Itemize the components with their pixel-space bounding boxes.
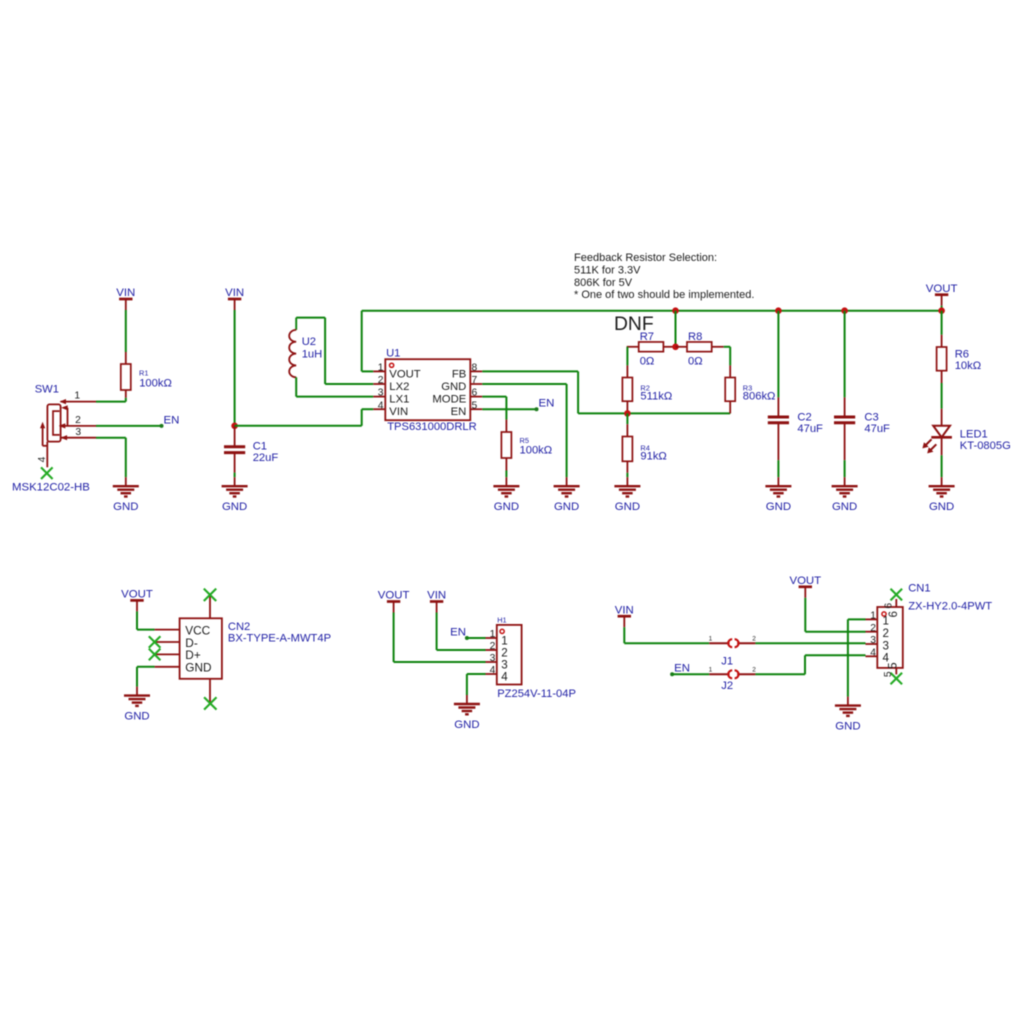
svg-text:806kΩ: 806kΩ bbox=[743, 390, 776, 402]
svg-text:CN2: CN2 bbox=[228, 621, 250, 633]
svg-text:GND: GND bbox=[441, 381, 466, 393]
svg-text:J2: J2 bbox=[721, 680, 733, 692]
svg-text:91kΩ: 91kΩ bbox=[640, 451, 666, 463]
svg-text:MSK12C02-HB: MSK12C02-HB bbox=[12, 482, 90, 494]
svg-text:C2: C2 bbox=[797, 412, 811, 424]
svg-text:1: 1 bbox=[709, 636, 713, 643]
svg-text:GND: GND bbox=[454, 719, 479, 731]
svg-text:3: 3 bbox=[378, 388, 384, 399]
svg-text:6: 6 bbox=[472, 388, 478, 399]
svg-text:4: 4 bbox=[378, 400, 384, 411]
svg-text:1: 1 bbox=[378, 363, 384, 374]
svg-text:GND: GND bbox=[832, 501, 857, 513]
svg-text:FB: FB bbox=[452, 368, 466, 380]
svg-text:VOUT: VOUT bbox=[926, 283, 958, 295]
svg-text:C1: C1 bbox=[253, 441, 267, 453]
svg-text:1: 1 bbox=[490, 629, 496, 640]
svg-text:VOUT: VOUT bbox=[389, 368, 420, 380]
svg-text:H1: H1 bbox=[497, 616, 506, 625]
svg-text:R1: R1 bbox=[139, 369, 148, 378]
svg-text:8: 8 bbox=[472, 363, 478, 374]
svg-text:100kΩ: 100kΩ bbox=[139, 378, 172, 390]
svg-text:KT-0805G: KT-0805G bbox=[960, 440, 1011, 452]
svg-text:C3: C3 bbox=[864, 412, 878, 424]
svg-text:511kΩ: 511kΩ bbox=[640, 390, 672, 402]
svg-text:VIN: VIN bbox=[427, 590, 446, 602]
svg-text:806K for 5V: 806K for 5V bbox=[574, 277, 633, 289]
svg-text:3: 3 bbox=[870, 635, 876, 646]
svg-text:GND: GND bbox=[222, 501, 247, 513]
svg-text:5: 5 bbox=[883, 671, 894, 677]
svg-text:6: 6 bbox=[883, 603, 894, 609]
svg-text:CN1: CN1 bbox=[908, 583, 930, 595]
svg-text:7: 7 bbox=[472, 375, 478, 386]
svg-text:4: 4 bbox=[490, 665, 496, 676]
svg-text:VIN: VIN bbox=[615, 604, 634, 616]
svg-text:2: 2 bbox=[378, 375, 384, 386]
svg-text:511K for 3.3V: 511K for 3.3V bbox=[574, 265, 641, 277]
svg-text:ZX-HY2.0-4PWT: ZX-HY2.0-4PWT bbox=[908, 600, 992, 612]
svg-text:2: 2 bbox=[870, 623, 876, 634]
svg-text:5: 5 bbox=[887, 662, 900, 668]
svg-text:GND: GND bbox=[185, 661, 211, 675]
svg-text:1uH: 1uH bbox=[302, 349, 323, 361]
svg-text:LED1: LED1 bbox=[960, 428, 988, 440]
svg-text:VOUT: VOUT bbox=[378, 590, 410, 602]
svg-text:47uF: 47uF bbox=[797, 423, 823, 435]
svg-text:100kΩ: 100kΩ bbox=[520, 445, 553, 457]
svg-text:VIN: VIN bbox=[116, 287, 135, 299]
svg-text:4: 4 bbox=[870, 647, 876, 658]
svg-text:U1: U1 bbox=[386, 347, 400, 359]
svg-text:3: 3 bbox=[75, 427, 81, 438]
svg-text:4: 4 bbox=[37, 456, 48, 462]
svg-text:R5: R5 bbox=[520, 436, 529, 445]
svg-text:3: 3 bbox=[883, 639, 889, 652]
svg-text:EN: EN bbox=[539, 397, 555, 409]
svg-text:GND: GND bbox=[494, 501, 519, 513]
svg-text:GND: GND bbox=[766, 501, 791, 513]
svg-text:MODE: MODE bbox=[432, 394, 466, 406]
svg-text:2: 2 bbox=[883, 627, 889, 640]
svg-text:GND: GND bbox=[554, 501, 579, 513]
svg-text:EN: EN bbox=[674, 663, 690, 675]
svg-text:47uF: 47uF bbox=[864, 423, 890, 435]
svg-text:4: 4 bbox=[501, 671, 508, 684]
svg-text:2: 2 bbox=[490, 641, 496, 652]
svg-text:VOUT: VOUT bbox=[789, 575, 821, 587]
svg-text:GND: GND bbox=[113, 501, 138, 513]
svg-text:EN: EN bbox=[164, 414, 180, 426]
svg-text:BX-TYPE-A-MWT4P: BX-TYPE-A-MWT4P bbox=[228, 633, 331, 645]
svg-text:22uF: 22uF bbox=[253, 452, 279, 464]
svg-text:PZ254V-11-04P: PZ254V-11-04P bbox=[497, 688, 576, 700]
svg-text:SW1: SW1 bbox=[35, 383, 59, 395]
svg-text:5: 5 bbox=[472, 400, 478, 411]
svg-text:EN: EN bbox=[451, 406, 467, 418]
svg-text:2: 2 bbox=[75, 415, 81, 426]
svg-text:VOUT: VOUT bbox=[121, 589, 153, 601]
svg-text:VIN: VIN bbox=[389, 406, 408, 418]
svg-text:1: 1 bbox=[74, 391, 80, 402]
svg-text:R8: R8 bbox=[688, 331, 702, 343]
svg-text:1: 1 bbox=[709, 667, 713, 674]
svg-text:TPS631000DRLR: TPS631000DRLR bbox=[387, 421, 477, 433]
svg-text:GND: GND bbox=[929, 501, 954, 513]
svg-text:LX1: LX1 bbox=[389, 394, 409, 406]
svg-text:0Ω: 0Ω bbox=[688, 356, 703, 368]
svg-text:J1: J1 bbox=[721, 656, 733, 668]
svg-text:1: 1 bbox=[870, 611, 876, 622]
svg-text:Feedback Resistor Selection:: Feedback Resistor Selection: bbox=[574, 252, 717, 264]
svg-text:GND: GND bbox=[615, 501, 640, 513]
svg-text:10kΩ: 10kΩ bbox=[955, 360, 981, 372]
svg-text:R7: R7 bbox=[640, 331, 654, 343]
svg-text:6: 6 bbox=[887, 611, 900, 617]
svg-text:EN: EN bbox=[450, 626, 466, 638]
svg-text:U2: U2 bbox=[302, 336, 316, 348]
svg-text:3: 3 bbox=[490, 653, 496, 664]
svg-text:0Ω: 0Ω bbox=[640, 356, 655, 368]
svg-text:2: 2 bbox=[752, 636, 756, 643]
svg-text:2: 2 bbox=[752, 667, 756, 674]
svg-text:R6: R6 bbox=[955, 348, 969, 360]
svg-text:LX2: LX2 bbox=[389, 381, 409, 393]
svg-text:* One of two should be impleme: * One of two should be implemented. bbox=[574, 289, 754, 301]
svg-text:GND: GND bbox=[835, 720, 860, 732]
svg-text:GND: GND bbox=[124, 710, 149, 722]
svg-text:VIN: VIN bbox=[225, 287, 244, 299]
